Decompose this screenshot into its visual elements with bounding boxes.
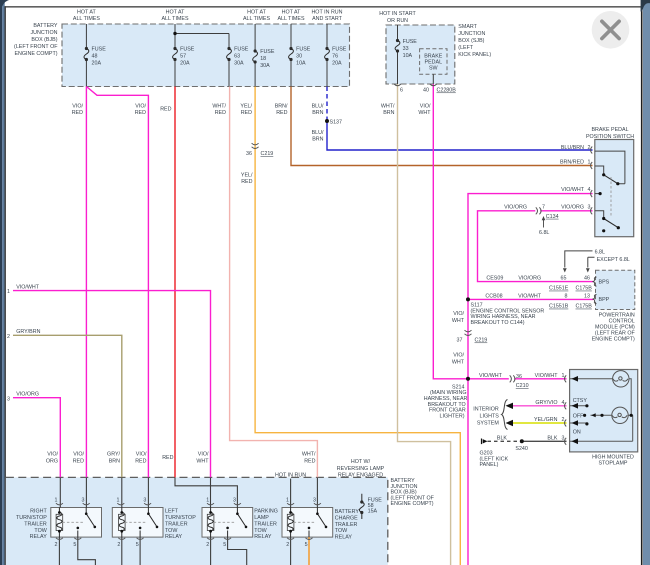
svg-text:5: 5 <box>136 542 139 548</box>
svg-text:RIGHT: RIGHT <box>30 509 47 515</box>
svg-text:ALL TIMES: ALL TIMES <box>277 16 304 22</box>
svg-text:18: 18 <box>260 56 266 62</box>
svg-text:3: 3 <box>313 498 316 504</box>
svg-text:57: 57 <box>180 54 186 60</box>
svg-text:VIO/: VIO/ <box>135 104 146 110</box>
svg-text:SW: SW <box>429 66 439 72</box>
svg-text:C210: C210 <box>516 383 529 389</box>
svg-text:VIO/: VIO/ <box>73 452 84 458</box>
svg-text:VIO/ORG: VIO/ORG <box>518 276 541 282</box>
svg-text:RED: RED <box>160 107 171 113</box>
svg-text:30: 30 <box>296 54 302 60</box>
svg-text:VIO/: VIO/ <box>453 311 464 317</box>
svg-text:20A: 20A <box>332 61 342 67</box>
svg-text:HOT AT: HOT AT <box>247 10 267 16</box>
svg-text:POSITION SWITCH: POSITION SWITCH <box>586 134 634 140</box>
svg-text:1: 1 <box>206 498 209 504</box>
svg-text:EXCEPT 6.8L: EXCEPT 6.8L <box>597 257 630 263</box>
svg-text:RED: RED <box>135 110 146 116</box>
svg-text:PANEL): PANEL) <box>480 462 499 468</box>
svg-text:GRY/VIO: GRY/VIO <box>535 400 557 406</box>
svg-text:5: 5 <box>223 542 226 548</box>
svg-text:36: 36 <box>516 374 522 380</box>
svg-text:PARKING: PARKING <box>254 509 278 515</box>
svg-text:HOT IN START: HOT IN START <box>379 11 416 17</box>
svg-text:76: 76 <box>332 54 338 60</box>
svg-text:46: 46 <box>584 276 590 282</box>
svg-text:37: 37 <box>457 338 463 344</box>
svg-text:FUSE: FUSE <box>234 47 249 53</box>
svg-text:BRN: BRN <box>312 110 323 116</box>
svg-text:VIO/ORG: VIO/ORG <box>561 204 584 210</box>
svg-text:C175B: C175B <box>576 286 593 292</box>
svg-text:S137: S137 <box>330 120 343 126</box>
svg-text:SYSTEM: SYSTEM <box>477 421 500 427</box>
svg-text:30A: 30A <box>260 63 270 69</box>
svg-text:3: 3 <box>143 498 146 504</box>
svg-text:3: 3 <box>233 498 236 504</box>
svg-text:13: 13 <box>584 293 590 299</box>
svg-text:WHT: WHT <box>452 318 465 324</box>
svg-text:TRAILER: TRAILER <box>335 522 358 528</box>
svg-text:ENGINE COMPT): ENGINE COMPT) <box>391 501 434 507</box>
svg-text:WHT: WHT <box>452 360 465 366</box>
svg-text:2: 2 <box>562 417 565 423</box>
svg-text:RED: RED <box>304 459 315 465</box>
svg-text:10A: 10A <box>296 61 306 67</box>
svg-text:BPS: BPS <box>599 280 610 286</box>
svg-text:ALL TIMES: ALL TIMES <box>73 16 100 22</box>
svg-text:JUNCTION: JUNCTION <box>458 31 485 37</box>
svg-text:1: 1 <box>117 498 120 504</box>
svg-text:2: 2 <box>117 542 120 548</box>
svg-text:C219: C219 <box>261 151 274 157</box>
svg-text:3: 3 <box>82 498 85 504</box>
svg-text:FUSE: FUSE <box>332 47 347 53</box>
svg-text:1: 1 <box>562 373 565 379</box>
svg-text:VIO/ORG: VIO/ORG <box>16 392 39 398</box>
svg-text:3: 3 <box>562 435 565 441</box>
svg-text:TRAILER: TRAILER <box>24 521 47 527</box>
svg-text:15A: 15A <box>368 509 378 515</box>
svg-text:BLU/BRN: BLU/BRN <box>561 145 584 151</box>
svg-text:C134: C134 <box>546 214 559 220</box>
svg-text:5: 5 <box>73 542 76 548</box>
svg-text:CTSY: CTSY <box>573 398 588 404</box>
svg-text:BLK: BLK <box>547 435 558 441</box>
svg-text:WHT: WHT <box>418 110 431 116</box>
svg-text:C2280B: C2280B <box>437 88 457 94</box>
svg-text:WHT/: WHT/ <box>381 104 395 110</box>
svg-text:40: 40 <box>423 88 429 94</box>
svg-text:LAMP: LAMP <box>254 515 269 521</box>
svg-text:GRY/: GRY/ <box>107 452 120 458</box>
svg-text:HOT W/: HOT W/ <box>351 459 371 465</box>
svg-text:SMART: SMART <box>458 24 477 30</box>
svg-text:BRN: BRN <box>109 459 120 465</box>
svg-text:VIO/WHT: VIO/WHT <box>518 293 542 299</box>
svg-text:63: 63 <box>234 54 240 60</box>
svg-text:RED: RED <box>241 179 252 185</box>
svg-text:VIO/: VIO/ <box>420 104 431 110</box>
svg-text:HOT AT: HOT AT <box>282 10 302 16</box>
svg-text:3: 3 <box>7 396 10 402</box>
svg-text:VIO/: VIO/ <box>47 452 58 458</box>
svg-text:VIO/WHT: VIO/WHT <box>479 373 503 379</box>
svg-text:(LEFT: (LEFT <box>458 45 474 51</box>
svg-text:RED: RED <box>72 110 83 116</box>
svg-text:GRY/BRN: GRY/BRN <box>16 329 40 335</box>
svg-text:BOX (BJB): BOX (BJB) <box>31 37 57 43</box>
svg-text:FUSE: FUSE <box>403 39 418 45</box>
svg-text:RED: RED <box>215 110 226 116</box>
svg-text:VIO/WHT: VIO/WHT <box>535 373 559 379</box>
svg-text:30A: 30A <box>234 61 244 67</box>
svg-text:TURN/STOP: TURN/STOP <box>16 515 47 521</box>
svg-text:TRAILER: TRAILER <box>254 521 277 527</box>
svg-text:20A: 20A <box>180 61 190 67</box>
svg-text:ORG: ORG <box>46 459 58 465</box>
svg-text:YEL/GRN: YEL/GRN <box>534 417 558 423</box>
svg-text:BLK: BLK <box>497 435 508 441</box>
svg-text:FUSE: FUSE <box>92 47 107 53</box>
svg-text:1: 1 <box>55 498 58 504</box>
svg-text:VIO/: VIO/ <box>453 353 464 359</box>
svg-text:BLU/: BLU/ <box>312 104 324 110</box>
svg-text:TOW: TOW <box>165 528 178 534</box>
svg-text:BRN/: BRN/ <box>275 104 288 110</box>
svg-text:2: 2 <box>286 542 289 548</box>
svg-text:AND START: AND START <box>312 16 343 22</box>
svg-text:TOW: TOW <box>335 528 348 534</box>
svg-text:RED: RED <box>241 110 252 116</box>
svg-text:BLU/: BLU/ <box>312 130 324 136</box>
svg-text:1: 1 <box>286 498 289 504</box>
svg-text:HOT IN RUN: HOT IN RUN <box>311 10 342 16</box>
svg-text:LIGHTER): LIGHTER) <box>440 413 465 419</box>
svg-text:BATTERY: BATTERY <box>33 23 58 29</box>
svg-text:YEL/: YEL/ <box>241 173 253 179</box>
svg-text:BATTERY: BATTERY <box>335 509 360 515</box>
svg-text:ALL TIMES: ALL TIMES <box>243 16 270 22</box>
svg-text:S240: S240 <box>515 446 528 452</box>
svg-text:TURN/STOP: TURN/STOP <box>165 515 196 521</box>
svg-text:HOT AT: HOT AT <box>77 10 97 16</box>
svg-text:CHARGE: CHARGE <box>335 515 358 521</box>
svg-text:RELAY: RELAY <box>335 535 353 541</box>
svg-text:RED: RED <box>135 459 146 465</box>
svg-text:CCB08: CCB08 <box>485 293 502 299</box>
svg-text:2: 2 <box>206 542 209 548</box>
svg-text:4: 4 <box>562 400 565 406</box>
svg-text:LEFT: LEFT <box>165 509 179 515</box>
svg-text:WHT/: WHT/ <box>302 452 316 458</box>
svg-text:ALL TIMES: ALL TIMES <box>161 16 188 22</box>
svg-text:RELAY ENGAGED: RELAY ENGAGED <box>338 473 383 479</box>
svg-text:10A: 10A <box>403 53 413 59</box>
svg-text:LIGHTS: LIGHTS <box>479 414 499 420</box>
svg-text:RED: RED <box>276 110 287 116</box>
svg-text:C1551E: C1551E <box>549 286 569 292</box>
svg-text:C175B: C175B <box>576 304 593 310</box>
svg-text:BRN/RED: BRN/RED <box>560 160 584 166</box>
svg-text:RED: RED <box>162 455 173 461</box>
svg-text:VIO/: VIO/ <box>198 452 209 458</box>
svg-text:HOT AT: HOT AT <box>166 10 186 16</box>
svg-text:4: 4 <box>588 187 591 193</box>
svg-text:8: 8 <box>565 293 568 299</box>
svg-text:REVERSING LAMP: REVERSING LAMP <box>337 466 385 472</box>
svg-text:BREAKOUT TO C144): BREAKOUT TO C144) <box>471 320 525 326</box>
svg-text:(LEFT FRONT OF: (LEFT FRONT OF <box>14 44 58 50</box>
svg-text:2: 2 <box>588 145 591 151</box>
svg-text:6: 6 <box>400 88 403 94</box>
svg-text:6.8L: 6.8L <box>595 249 605 255</box>
svg-text:BPP: BPP <box>599 297 610 303</box>
svg-text:RELAY: RELAY <box>30 534 48 540</box>
svg-text:7: 7 <box>542 204 545 210</box>
svg-text:C219: C219 <box>475 338 488 344</box>
svg-text:ENGINE COMPT): ENGINE COMPT) <box>592 336 635 342</box>
svg-text:OFF: OFF <box>573 414 584 420</box>
svg-text:VIO/ORG: VIO/ORG <box>504 204 527 210</box>
svg-text:48: 48 <box>92 54 98 60</box>
svg-text:5: 5 <box>305 542 308 548</box>
svg-text:JUNCTION: JUNCTION <box>30 30 57 36</box>
svg-text:BRAKE PEDAL: BRAKE PEDAL <box>591 127 628 133</box>
svg-text:RELAY: RELAY <box>165 534 183 540</box>
svg-text:1: 1 <box>588 160 591 166</box>
svg-text:C1551B: C1551B <box>549 304 569 310</box>
svg-text:65: 65 <box>561 276 567 282</box>
svg-text:3: 3 <box>588 204 591 210</box>
svg-text:RELAY: RELAY <box>254 534 272 540</box>
svg-text:INTERIOR: INTERIOR <box>473 407 499 413</box>
svg-text:ENGINE COMPT): ENGINE COMPT) <box>14 51 57 57</box>
svg-text:CES09: CES09 <box>486 276 503 282</box>
svg-text:WHT/: WHT/ <box>212 104 226 110</box>
svg-text:FUSE: FUSE <box>296 47 311 53</box>
svg-text:2: 2 <box>7 334 10 340</box>
svg-text:20A: 20A <box>92 61 102 67</box>
svg-text:TOW: TOW <box>254 528 267 534</box>
svg-text:HOT IN RUN: HOT IN RUN <box>275 472 306 478</box>
svg-text:TRAILER: TRAILER <box>165 521 188 527</box>
svg-text:BOX (SJB): BOX (SJB) <box>458 38 484 44</box>
svg-text:VIO/WHT: VIO/WHT <box>561 187 585 193</box>
svg-text:TOW: TOW <box>34 528 47 534</box>
svg-text:STOPLAMP: STOPLAMP <box>598 461 627 467</box>
svg-text:BRN: BRN <box>312 136 323 142</box>
svg-text:33: 33 <box>403 46 409 52</box>
svg-text:YEL/: YEL/ <box>240 104 252 110</box>
svg-text:VIO/: VIO/ <box>72 104 83 110</box>
svg-text:RED: RED <box>73 459 84 465</box>
svg-text:WHT: WHT <box>196 459 209 465</box>
svg-text:2: 2 <box>55 542 58 548</box>
svg-text:FUSE: FUSE <box>180 47 195 53</box>
svg-text:FUSE: FUSE <box>260 49 275 55</box>
svg-text:36: 36 <box>246 151 252 157</box>
svg-text:VIO/: VIO/ <box>136 452 147 458</box>
svg-text:KICK PANEL): KICK PANEL) <box>458 52 491 58</box>
svg-text:1: 1 <box>7 289 10 295</box>
svg-text:ON: ON <box>573 429 581 435</box>
svg-text:6.8L: 6.8L <box>539 230 549 236</box>
svg-text:BRN: BRN <box>383 110 394 116</box>
svg-text:VIO/WHT: VIO/WHT <box>16 285 40 291</box>
svg-text:OR RUN: OR RUN <box>387 18 408 24</box>
